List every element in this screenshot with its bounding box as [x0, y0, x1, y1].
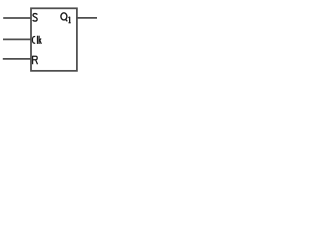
wire S input: [3, 17, 31, 19]
wire Q1 output: [77, 17, 97, 19]
pin label Q1: [61, 13, 71, 23]
flip-flop U1 body: [31, 8, 77, 71]
pin label R: [33, 56, 38, 64]
pin label Clk: [32, 36, 41, 44]
wire R input: [3, 58, 31, 60]
pin label S: [33, 14, 37, 22]
wire Clk input: [3, 38, 31, 40]
